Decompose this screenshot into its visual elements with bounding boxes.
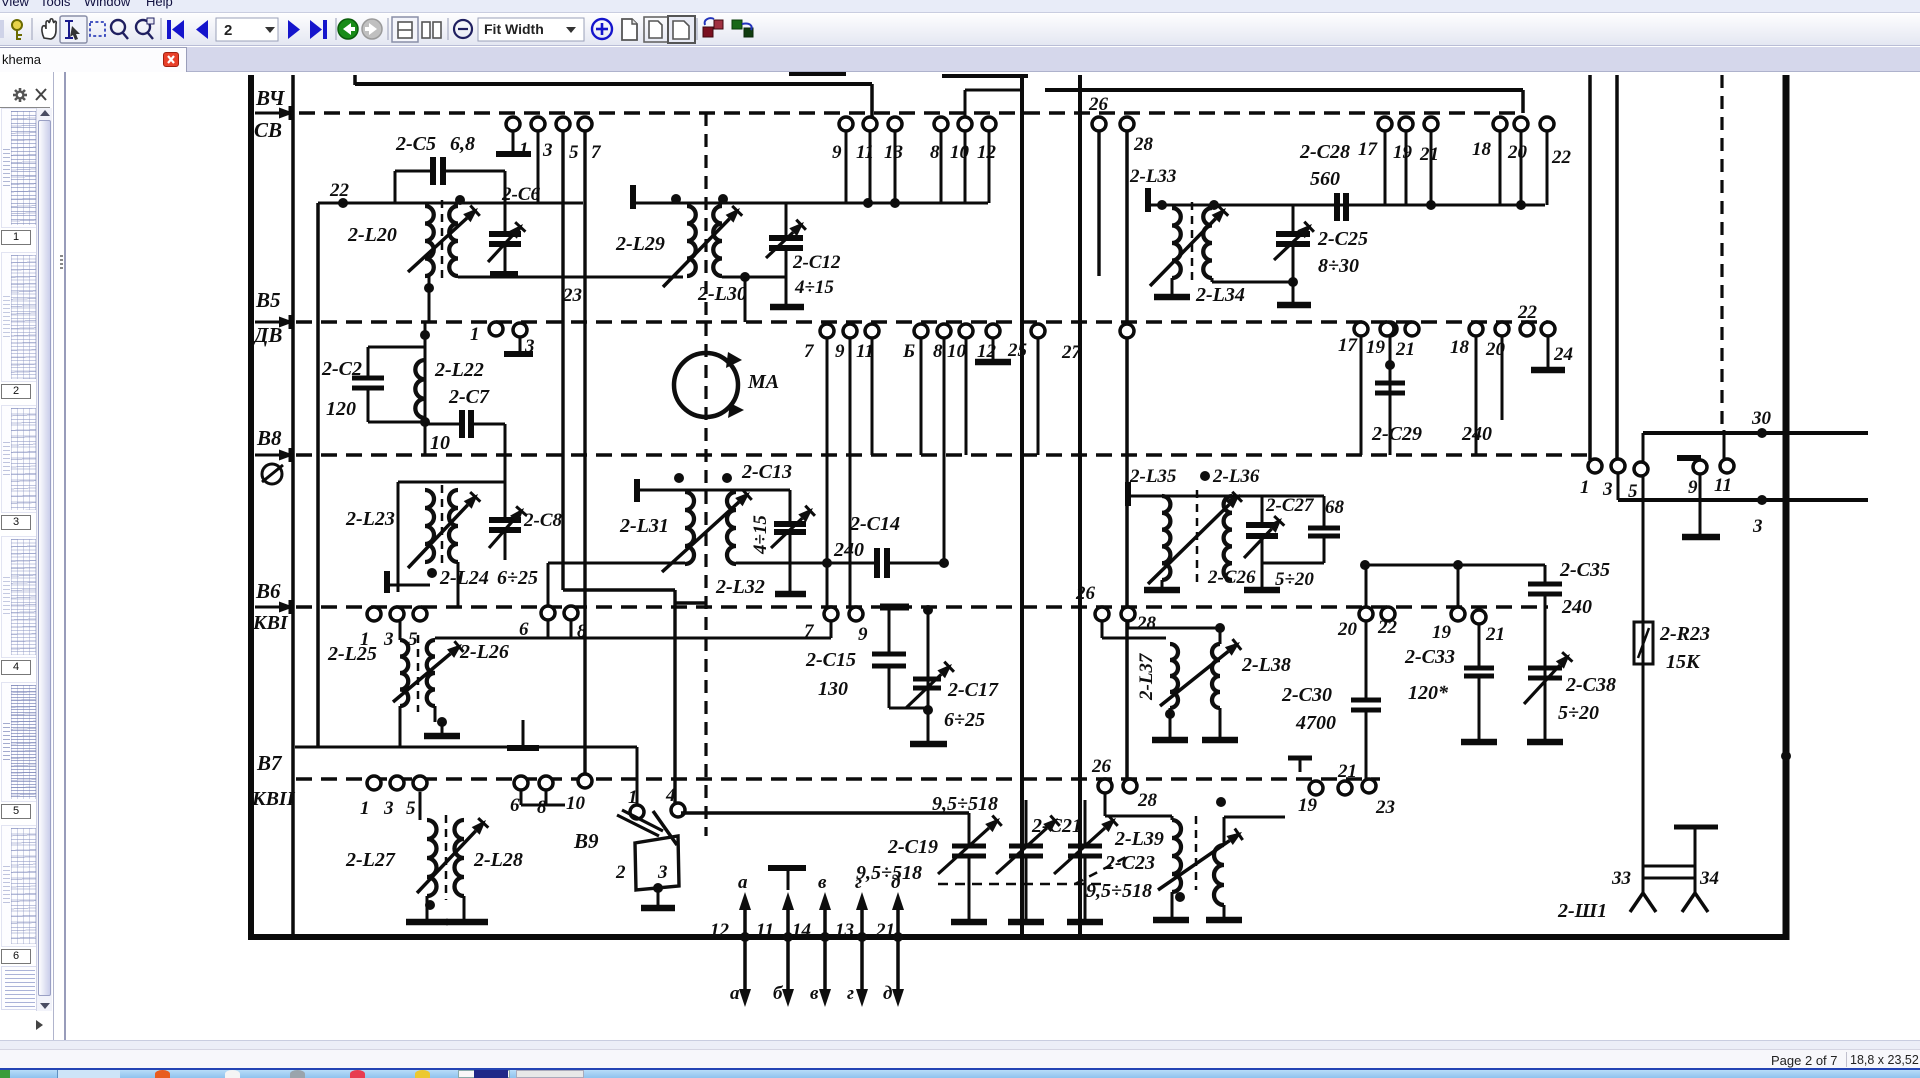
pin 28 (SV right) bbox=[1120, 117, 1134, 131]
pin 26 (SV right) bbox=[1092, 117, 1106, 131]
wire pin17 column (V5 right) bbox=[1360, 336, 1363, 455]
pin 21 (SV far right) bbox=[1424, 117, 1438, 131]
wire L25 bottom to V7 bus bbox=[399, 706, 402, 747]
svg-text:КВII: КВII bbox=[251, 788, 296, 810]
rotate right icon bbox=[732, 20, 753, 37]
wire pin7 jog bbox=[830, 621, 833, 638]
wire pin26 to L39 bbox=[1104, 793, 1107, 816]
svg-text:3: 3 bbox=[383, 798, 394, 819]
svg-text:20: 20 bbox=[1507, 142, 1528, 163]
pin 6 (KV1 row) bbox=[541, 606, 555, 620]
pin 8 (SV row mid) bbox=[934, 117, 948, 131]
inductor 2-L38 bbox=[1212, 644, 1220, 708]
junction dot line30 bbox=[1757, 428, 1767, 438]
ground C35/C38 column bbox=[1527, 739, 1563, 746]
svg-text:В7: В7 bbox=[256, 751, 283, 775]
svg-text:28: 28 bbox=[1136, 613, 1157, 634]
wire pin1 up bbox=[636, 747, 639, 805]
svg-text:3: 3 bbox=[542, 140, 553, 161]
svg-text:Fit Width: Fit Width bbox=[484, 21, 544, 37]
single page layout bbox=[392, 17, 418, 42]
tuning arrow 2-L29/30 bbox=[663, 219, 730, 287]
svg-text:2-L30: 2-L30 bbox=[697, 283, 747, 305]
svg-text:2-С17: 2-С17 bbox=[947, 679, 999, 701]
band arrow V6 bbox=[255, 606, 279, 609]
svg-text:130: 130 bbox=[818, 678, 848, 700]
svg-text:Б: Б bbox=[902, 341, 915, 362]
wire L34 bottom to C25 bbox=[1211, 278, 1214, 282]
external pin 13 arrow bbox=[860, 905, 864, 995]
svg-text:5: 5 bbox=[1628, 481, 1638, 502]
svg-text:2-L28: 2-L28 bbox=[473, 849, 523, 871]
band line V8 (dashed) bbox=[296, 453, 1595, 456]
svg-text:2: 2 bbox=[615, 862, 626, 883]
wire pin3 down bbox=[537, 131, 540, 203]
pin 13 (SV row mid) bbox=[888, 117, 902, 131]
wire SV right bus bbox=[1148, 204, 1545, 207]
switch V9 pin 4 bbox=[671, 803, 685, 817]
pin 9 (V8 right) bbox=[1693, 460, 1707, 474]
svg-text:19: 19 bbox=[1366, 337, 1386, 358]
svg-text:МА: МА bbox=[747, 371, 779, 393]
pin 21 (V5 far right) bbox=[1405, 322, 1419, 336]
svg-text:2-С26: 2-С26 bbox=[1207, 567, 1256, 588]
svg-text:9,5÷518: 9,5÷518 bbox=[1086, 880, 1152, 902]
svg-text:2-С19: 2-С19 bbox=[887, 836, 938, 858]
wire L24 bottom bbox=[457, 562, 460, 607]
ground 2-C23 bbox=[1067, 919, 1103, 926]
last page bbox=[310, 20, 327, 39]
pin 5 (SV row) bbox=[556, 117, 570, 131]
sidebar splitter bbox=[53, 72, 66, 1040]
external pin 14 arrow bbox=[823, 905, 827, 995]
svg-text:34: 34 bbox=[1699, 868, 1719, 889]
junction dot L21 top bbox=[455, 195, 465, 205]
wire pin7 column bbox=[826, 338, 829, 607]
svg-text:8: 8 bbox=[930, 142, 940, 163]
band arrow VCh bbox=[255, 112, 279, 115]
pin 1 (V5 row) bbox=[489, 322, 503, 336]
pin 8 (V5 row mid) bbox=[937, 324, 951, 338]
schematic top border segment left bbox=[355, 82, 872, 86]
pin 11 (SV row mid) bbox=[863, 117, 877, 131]
pin 1 (KV1 row) bbox=[367, 607, 381, 621]
wire pin26 to L37 bbox=[1101, 621, 1104, 638]
svg-text:6,8: 6,8 bbox=[450, 133, 475, 155]
wire V8 mid bottom left bbox=[548, 562, 685, 565]
svg-text:2-L24: 2-L24 bbox=[439, 567, 489, 589]
svg-text:в: в bbox=[810, 983, 819, 1004]
pin 28 (KV2 mid) bbox=[1123, 779, 1137, 793]
svg-text:7: 7 bbox=[591, 142, 602, 163]
menu bar bbox=[0, 0, 1920, 13]
svg-text:4: 4 bbox=[665, 785, 676, 806]
inductor 2-L24 bbox=[449, 490, 458, 562]
svg-text:2-С7: 2-С7 bbox=[448, 386, 490, 408]
svg-text:2-С5: 2-С5 bbox=[395, 133, 436, 155]
pin 10 (V5 row mid) bbox=[959, 324, 973, 338]
band line V6/KV1 (dashed) bbox=[296, 605, 1548, 608]
svg-text:2-L23: 2-L23 bbox=[345, 508, 395, 530]
pin 3 (V5 row) bbox=[513, 323, 527, 337]
svg-text:д: д bbox=[883, 983, 892, 1004]
pin 22 (V5 far right) bbox=[1520, 322, 1534, 336]
key icon bbox=[12, 20, 22, 40]
next page bbox=[288, 20, 300, 39]
gang link dashed bbox=[938, 883, 1105, 886]
wire vertical bus x1127 (long) bbox=[1125, 131, 1129, 781]
junction bar 2-C6 bottom bbox=[490, 271, 518, 277]
dynamic zoom bbox=[136, 18, 154, 39]
svg-text:В9: В9 bbox=[573, 829, 599, 853]
trimmer 2-C26 bbox=[1261, 496, 1264, 523]
sidebar panel bbox=[0, 72, 53, 1040]
svg-text:19: 19 bbox=[1432, 622, 1452, 643]
pin 20 (KV1 right) bbox=[1359, 607, 1373, 621]
svg-text:2-L27: 2-L27 bbox=[345, 849, 396, 871]
facing pages layout bbox=[422, 22, 441, 38]
node 22 junction bbox=[338, 198, 348, 208]
core dashed 2-L25/26 bbox=[417, 635, 420, 712]
pin 5 (KV1 row) bbox=[413, 607, 427, 621]
core dashed 2-L33/34 bbox=[1191, 202, 1194, 284]
pin 7 (KV1 mid) bbox=[824, 607, 838, 621]
wire vertical bus x1022 (long) bbox=[1020, 75, 1024, 937]
svg-text:2-С28: 2-С28 bbox=[1299, 141, 1350, 163]
wire KV2 pins jog bbox=[520, 790, 523, 805]
core dashed 2-L39 bbox=[1195, 816, 1198, 890]
wire pin9 column bbox=[849, 338, 852, 607]
switch V9 blades bbox=[617, 815, 659, 836]
pin 3 (KV2 row) bbox=[390, 776, 404, 790]
svg-text:КВI: КВI bbox=[252, 612, 289, 634]
bottom horizontal scrollbar strip bbox=[0, 1040, 1920, 1049]
junction bar on KV1 line bbox=[880, 604, 909, 611]
wire SV mid top bbox=[633, 202, 988, 205]
junction dot L35/36 bbox=[1200, 471, 1210, 481]
junction dot C29 bbox=[1385, 360, 1395, 370]
external pin 21 arrow bbox=[896, 905, 900, 995]
svg-text:23: 23 bbox=[1375, 797, 1395, 818]
wire L20 bottom down bbox=[428, 276, 431, 322]
fit width combo bbox=[478, 18, 584, 41]
svg-text:а: а bbox=[738, 872, 748, 893]
zoom out bbox=[454, 20, 472, 38]
svg-text:2-L39: 2-L39 bbox=[1114, 828, 1164, 850]
svg-text:В5: В5 bbox=[255, 288, 281, 312]
shield tap KV1 bbox=[522, 720, 525, 748]
band arrow V5 bbox=[255, 321, 279, 324]
wire pin10 column bbox=[965, 338, 968, 455]
svg-text:2-С23: 2-С23 bbox=[1104, 852, 1155, 874]
wire line 30 bbox=[1643, 431, 1868, 435]
svg-text:4700: 4700 bbox=[1295, 712, 1336, 734]
hand tool bbox=[42, 19, 56, 39]
svg-text:ДВ: ДВ bbox=[252, 323, 282, 347]
svg-text:9,5÷518: 9,5÷518 bbox=[856, 862, 922, 884]
schematic page border bottom (thick) bbox=[248, 934, 1789, 940]
svg-text:2-С14: 2-С14 bbox=[849, 513, 900, 535]
svg-text:2-С15: 2-С15 bbox=[805, 649, 856, 671]
zoom in bbox=[592, 19, 612, 39]
wire top-right corner to CB pins bbox=[870, 84, 874, 120]
inductor 2-L35 bbox=[1162, 496, 1170, 580]
svg-text:28: 28 bbox=[1133, 134, 1154, 155]
svg-text:7: 7 bbox=[804, 341, 815, 362]
junction dot L32 top bbox=[722, 473, 732, 483]
wire gang feed bbox=[681, 811, 969, 814]
pin 7 (SV row) bbox=[578, 117, 592, 131]
inductor 2-L36 bbox=[1224, 496, 1232, 580]
svg-text:1: 1 bbox=[470, 324, 480, 345]
junction dot L31 top bbox=[674, 473, 684, 483]
capacitor 2-C35 bbox=[1544, 565, 1547, 582]
pin 19 (V5 far right) bbox=[1380, 322, 1394, 336]
svg-text:2-L38: 2-L38 bbox=[1241, 654, 1291, 676]
tuning arrow 2-L25/26 bbox=[393, 654, 451, 702]
wire SV cluster top bbox=[318, 202, 583, 205]
capacitor 2-C2 bbox=[367, 347, 370, 377]
wire line 3 bbox=[1618, 498, 1868, 502]
junction dots on SV mid bus bbox=[863, 198, 873, 208]
svg-text:30: 30 bbox=[1751, 408, 1772, 429]
wire pin5 to L27 bbox=[419, 792, 422, 820]
tuning arrow 2-L35/36 bbox=[1148, 504, 1229, 584]
inductor 2-L26 bbox=[427, 640, 435, 706]
pin 8 (KV1 row) bbox=[564, 606, 578, 620]
svg-text:5÷20: 5÷20 bbox=[1558, 702, 1599, 724]
pin 18 (SV far right) bbox=[1493, 117, 1507, 131]
ground 2-C12 bbox=[770, 304, 804, 311]
wire L31 top bbox=[639, 489, 790, 492]
svg-text:19: 19 bbox=[1298, 795, 1318, 816]
pin 6 (KV2 row) bbox=[514, 776, 528, 790]
svg-text:28: 28 bbox=[1137, 790, 1158, 811]
trimmer 2-C17 bbox=[913, 677, 941, 682]
pin 20 (V5 far right) bbox=[1495, 322, 1509, 336]
ground 2-C17 bbox=[910, 741, 947, 748]
svg-text:21: 21 bbox=[1485, 624, 1505, 645]
ground 2-L39 bbox=[1171, 892, 1174, 918]
svg-text:2-L20: 2-L20 bbox=[347, 224, 397, 246]
shield tap at pin 1 bbox=[512, 131, 515, 152]
core dashed 2-L27/28 bbox=[445, 815, 448, 900]
svg-text:2-L34: 2-L34 bbox=[1195, 284, 1245, 306]
svg-text:1: 1 bbox=[360, 798, 370, 819]
junction dots V8 mid bbox=[822, 558, 832, 568]
svg-text:18: 18 bbox=[1450, 337, 1470, 358]
svg-text:240: 240 bbox=[833, 539, 864, 561]
pin 1 (V8 right) bbox=[1588, 459, 1602, 473]
svg-text:6: 6 bbox=[510, 795, 520, 816]
svg-text:2-С30: 2-С30 bbox=[1281, 684, 1332, 706]
variable capacitor 2-C23 bbox=[1084, 800, 1087, 844]
wire L21 bottom to L29 bbox=[458, 276, 683, 279]
svg-text:17: 17 bbox=[1338, 335, 1359, 356]
svg-text:2-L31: 2-L31 bbox=[619, 515, 669, 537]
switch V9 body bbox=[635, 836, 679, 890]
wire vertical bus x318 bbox=[316, 203, 320, 747]
select tool (active) bbox=[60, 16, 87, 43]
back (green) bbox=[338, 19, 358, 39]
tuning arrow 2-L23/24 bbox=[408, 505, 468, 568]
wire pin5 long column bbox=[561, 131, 564, 590]
pin 22 (KV1 right) bbox=[1381, 607, 1395, 621]
ground 2-L39 secondary bbox=[1223, 905, 1226, 918]
svg-text:10: 10 bbox=[947, 341, 967, 362]
schematic page border left (thick) bbox=[248, 75, 254, 937]
junction dots C35 feed bbox=[1360, 560, 1370, 570]
taskbar bbox=[0, 1068, 1920, 1078]
ground 2-L38 bbox=[1219, 708, 1222, 738]
svg-text:2-L35: 2-L35 bbox=[1129, 466, 1177, 487]
wire KV1 band horizontal bbox=[435, 637, 831, 640]
svg-text:15К: 15К bbox=[1666, 651, 1701, 673]
pin 8 (KV2 row) bbox=[539, 776, 553, 790]
wire pin28 to L38 bbox=[1127, 621, 1130, 628]
pin 10 (KV2 row) bbox=[578, 774, 592, 788]
capacitor 2-C14 bbox=[874, 548, 880, 578]
svg-text:9: 9 bbox=[1688, 477, 1698, 498]
wire pin11 column bbox=[871, 338, 874, 455]
inductor 2-L39 bbox=[1171, 816, 1174, 820]
pin 21 (KV1 right) bbox=[1472, 610, 1486, 624]
pin 25 (V5 right) bbox=[1031, 324, 1045, 338]
svg-text:120*: 120* bbox=[1408, 682, 1449, 704]
pin 12 (SV row mid) bbox=[982, 117, 996, 131]
schematic top border segment right bbox=[1045, 88, 1523, 92]
ground 2-L27 bbox=[426, 896, 429, 920]
svg-text:2-L26: 2-L26 bbox=[459, 641, 509, 663]
inductor 2-L23 bbox=[425, 490, 434, 562]
gang link dashed diagonal bbox=[1075, 855, 1130, 884]
pin 7 (V5 row mid) bbox=[820, 324, 834, 338]
tuning arrow 2-L20/21 bbox=[408, 218, 467, 272]
band line SV (dashed) bbox=[299, 111, 1523, 114]
ground 2-C19 bbox=[951, 919, 987, 926]
junction dot V9 bbox=[653, 883, 663, 893]
svg-text:8÷30: 8÷30 bbox=[1318, 255, 1359, 277]
tab bar bbox=[0, 47, 1920, 72]
svg-text:6÷25: 6÷25 bbox=[497, 567, 538, 589]
capacitor 2-C29 bbox=[1383, 322, 1397, 336]
svg-text:4÷15: 4÷15 bbox=[750, 515, 771, 555]
svg-text:22: 22 bbox=[1551, 147, 1572, 168]
svg-text:21: 21 bbox=[1419, 144, 1439, 165]
pin 19 (SV far right) bbox=[1399, 117, 1413, 131]
wire pin10 top jog bbox=[964, 90, 967, 118]
core dashed 2-L20/21 bbox=[441, 200, 444, 282]
svg-text:2-С25: 2-С25 bbox=[1317, 228, 1368, 250]
inductor 2-L27 bbox=[427, 820, 437, 896]
inductor 2-L33 bbox=[1172, 208, 1181, 278]
band line V5/DV (dashed) bbox=[296, 320, 1548, 323]
switch V9 pin 1 bbox=[630, 805, 644, 819]
capacitor 2-C28 bbox=[1334, 193, 1340, 221]
shield tap 2-L35 bbox=[1125, 482, 1131, 506]
first page bbox=[167, 20, 184, 39]
wire vertical x425 V5 band bbox=[424, 322, 427, 455]
wire pin6 down bbox=[547, 620, 550, 638]
pin 12 (V5 row mid) bbox=[986, 324, 1000, 338]
svg-text:12: 12 bbox=[710, 920, 730, 941]
svg-text:560: 560 bbox=[1310, 168, 1340, 190]
wire pin20 up bbox=[1365, 565, 1368, 608]
svg-text:5÷20: 5÷20 bbox=[1275, 569, 1314, 590]
capacitor 2-C7 bbox=[425, 423, 462, 426]
wire C7 to L23 loop bbox=[504, 424, 507, 482]
variable capacitor 2-C19 bbox=[968, 813, 971, 844]
inductor 2-L30 bbox=[713, 206, 722, 276]
actual size page bbox=[622, 19, 637, 40]
inductor 2-L25 bbox=[400, 640, 408, 706]
variable capacitor 2-C21 bbox=[1025, 800, 1028, 844]
tuning arrow 2-L37/38 bbox=[1160, 651, 1228, 706]
svg-text:8: 8 bbox=[933, 341, 943, 362]
pin 20 (SV far right) bbox=[1514, 117, 1528, 131]
trimmer 2-C13 bbox=[789, 490, 792, 522]
pin 5 (V8 right) bbox=[1634, 462, 1648, 476]
pin 1 (SV row) bbox=[506, 117, 520, 131]
junction dot L20 bottom bbox=[424, 283, 434, 293]
junction bar above pin9 bbox=[1677, 455, 1701, 461]
svg-text:6÷25: 6÷25 bbox=[944, 709, 985, 731]
wire 2-C5 loop right bbox=[504, 171, 507, 196]
svg-text:10: 10 bbox=[430, 432, 450, 454]
inductor 2-L37 bbox=[1170, 644, 1178, 708]
wire down to V5 row bbox=[744, 277, 747, 322]
svg-text:19: 19 bbox=[1393, 142, 1413, 163]
panel header icons bbox=[0, 80, 53, 120]
wire pin8 column bbox=[943, 338, 946, 563]
svg-text:13: 13 bbox=[835, 920, 854, 941]
ground V9 bbox=[657, 890, 660, 906]
svg-text:2-L32: 2-L32 bbox=[715, 576, 765, 598]
polarity dot L39 secondary bbox=[1216, 797, 1226, 807]
svg-text:7: 7 bbox=[804, 621, 815, 642]
wire pin8 down bbox=[570, 620, 573, 638]
svg-text:9: 9 bbox=[835, 341, 845, 362]
junction dot KV1 mid bbox=[923, 605, 933, 615]
svg-text:22: 22 bbox=[329, 180, 350, 201]
wire vertical bus x1590 bbox=[1588, 75, 1592, 460]
shield tap V8 left bbox=[384, 571, 390, 593]
svg-text:3: 3 bbox=[1752, 516, 1763, 537]
wire pin3 to line3 bbox=[1617, 473, 1620, 500]
ground 2-C25 bbox=[1277, 302, 1311, 309]
svg-text:9: 9 bbox=[858, 624, 868, 645]
schematic inner vertical border bbox=[291, 75, 295, 937]
wire L23 loop left bbox=[397, 482, 400, 592]
svg-text:2-L36: 2-L36 bbox=[1212, 466, 1260, 487]
trimmer 2-C6 bbox=[504, 196, 507, 232]
wire V7 long horizontal bbox=[295, 746, 637, 749]
svg-text:10: 10 bbox=[950, 142, 970, 163]
inductor 2-L20 bbox=[425, 206, 434, 276]
sidebar scrollbar bbox=[36, 108, 52, 1011]
band line V7/KV2 (dashed) bbox=[296, 777, 1380, 780]
wire pin11 up bbox=[1723, 430, 1726, 460]
connector 2-Sh1 links bbox=[1643, 865, 1695, 868]
wire L35 top bbox=[1130, 495, 1324, 498]
svg-text:11: 11 bbox=[1714, 475, 1732, 496]
junction dot line3 bbox=[1757, 495, 1767, 505]
dashed vertical right bbox=[1720, 75, 1723, 430]
svg-text:3: 3 bbox=[383, 629, 394, 650]
junction dot L26 bottom bbox=[437, 717, 447, 727]
svg-text:2-С33: 2-С33 bbox=[1404, 646, 1455, 668]
capacitor 2-C5 bbox=[395, 170, 433, 173]
